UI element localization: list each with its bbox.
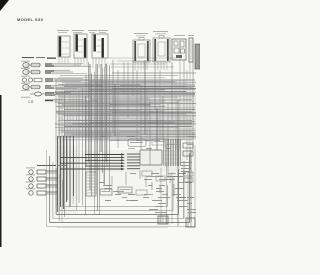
svg-text:C.B: C.B [28, 100, 33, 104]
svg-text:MODEL S30: MODEL S30 [17, 17, 44, 22]
